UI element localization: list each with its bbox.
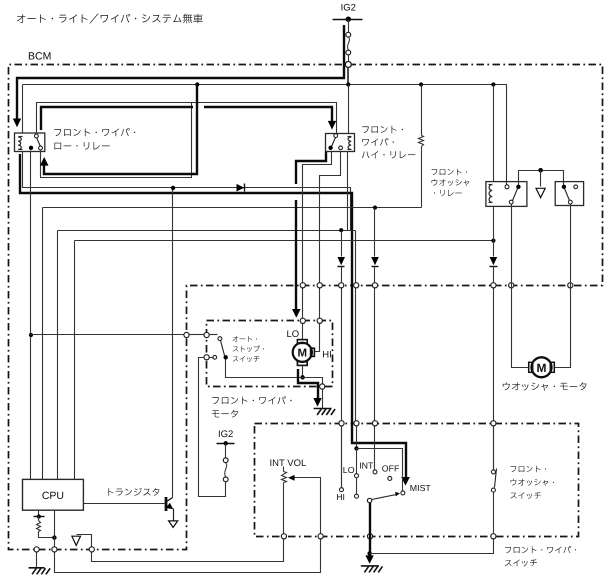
wire washer motor left feed	[512, 205, 529, 368]
motor M front wiper	[293, 343, 312, 362]
node junctions on y84 rail	[195, 82, 199, 86]
label ロー・リレー	[54, 142, 109, 150]
ground BCM	[36, 553, 38, 568]
svg-text:LO: LO	[287, 329, 300, 340]
relay front wiper high	[326, 134, 355, 152]
relay blade right box	[565, 189, 570, 201]
diode D3	[371, 257, 379, 265]
arrow continuation washer	[540, 171, 542, 187]
wire thick high relay common to motor LO	[296, 152, 326, 184]
label オート・ライト／ワイパ・システム無車	[17, 14, 203, 24]
wire thick motor brush to ground	[298, 369, 318, 398]
wire IG2 to auto stop contact	[199, 358, 226, 497]
arrow continuation below transistor	[169, 521, 178, 528]
svg-text:M: M	[537, 361, 547, 375]
arrow continuation stub	[72, 536, 81, 545]
arrow motor ground	[313, 398, 321, 407]
diode D4	[490, 257, 498, 265]
wire high relay coil bottom pin	[347, 152, 349, 231]
arrow into high relay	[328, 121, 336, 130]
svg-text:INT VOL: INT VOL	[270, 458, 307, 469]
svg-text:IG2: IG2	[341, 3, 356, 14]
wire motor bottom to junction	[302, 366, 304, 378]
wire HI contact drop	[341, 231, 343, 257]
wire LO contact	[356, 449, 358, 474]
wire thin rail y84	[23, 85, 507, 185]
contact HI	[341, 426, 343, 488]
wire bus y240.6 washer relay drive	[75, 240, 494, 242]
wire washer relay coil pins	[493, 85, 495, 182]
wire high relay pin to motor sense	[303, 152, 332, 341]
wire blade common to ground	[369, 503, 371, 556]
svg-text:CPU: CPU	[42, 490, 64, 502]
resistor R2 below CPU	[38, 516, 40, 521]
node BCM bottom circles	[34, 547, 39, 552]
wire L3 thin low relay left pin	[23, 152, 351, 231]
label フロント・ワイパ・	[505, 546, 576, 553]
relay blade high	[332, 138, 336, 147]
svg-text:IG2: IG2	[218, 429, 233, 440]
wire bus y207.6 LO drive	[43, 207, 422, 209]
label ストップ・	[233, 346, 264, 352]
label ウオッシャ・モータ	[503, 382, 587, 390]
label フロント・	[511, 466, 547, 473]
wire thick y107 to high relay arrow	[41, 107, 193, 130]
arrow switch ground	[365, 555, 373, 563]
wire high relay coil top riser	[348, 85, 350, 134]
label ウオッシャ・	[511, 479, 555, 486]
wire thick feed rail y77	[17, 25, 344, 119]
relay blade low	[37, 138, 41, 147]
wire CPU pin4 riser x74.9	[74, 241, 76, 480]
label スイッチ	[505, 559, 537, 566]
label オート・	[233, 336, 257, 342]
ground wiper switch	[361, 566, 383, 573]
node switch box top circles	[339, 421, 344, 426]
diode D2	[337, 257, 345, 265]
svg-text:BCM: BCM	[28, 51, 51, 63]
fuse IG2 top	[346, 32, 351, 37]
wire low relay pin2 drop	[22, 85, 24, 133]
wire auto stop common to ground rail	[226, 358, 323, 409]
svg-text:HI: HI	[322, 350, 332, 361]
wire INT contact drop	[374, 208, 376, 257]
arrow pot wiper	[288, 475, 295, 481]
label ・リレー	[434, 190, 462, 196]
wiper switch boundary box	[255, 424, 579, 537]
switch blade wiper	[367, 498, 371, 502]
wire high relay NO pin to motor HI	[315, 152, 341, 352]
wiper motor boundary box	[207, 321, 333, 387]
svg-text:MIST: MIST	[410, 483, 432, 493]
svg-text:HI: HI	[336, 492, 345, 502]
contact box right	[555, 182, 583, 206]
label ハイ・リレー	[362, 151, 415, 158]
label トランジスタ	[108, 488, 159, 496]
svg-text:OFF: OFF	[382, 464, 400, 474]
svg-text:M: M	[298, 348, 308, 360]
wire L4 thick coil bottom feed to wiper switch	[20, 154, 406, 477]
wire MIST feed thin drop	[355, 231, 357, 424]
power tap IG2 top	[333, 19, 363, 21]
node IG2 entry to BCM	[345, 62, 351, 68]
label ウオッシャ	[432, 179, 470, 186]
wire CPU to auto stop	[31, 334, 184, 336]
contact INT	[373, 470, 377, 474]
svg-text:LO: LO	[343, 465, 355, 475]
contact OFF	[388, 476, 392, 480]
svg-text:INT: INT	[359, 460, 374, 470]
wire washer switch to ground node	[370, 539, 494, 554]
label スイッチ	[233, 356, 260, 362]
wire L2 loop low relay right pin	[41, 103, 192, 178]
wire low relay top circle to high relay top circle	[37, 103, 337, 135]
arrow into motor LO	[292, 309, 301, 318]
label フロント・ワイパ・	[212, 396, 291, 404]
arrow MIST feed	[401, 477, 410, 486]
wire pot bottom return	[92, 539, 284, 562]
node switch box bottom circles	[281, 534, 286, 539]
CPU box	[23, 479, 84, 510]
label フロント・	[362, 126, 403, 133]
resistor R1	[421, 85, 423, 136]
wire thick feed loop to low relay	[44, 84, 197, 174]
switch auto stop	[218, 337, 222, 341]
switch front washer	[493, 426, 495, 470]
relay front washer	[486, 182, 527, 207]
relay front wiper low	[15, 133, 45, 152]
transistor Q1 base wire	[84, 503, 165, 505]
potentiometer INT VOL	[283, 467, 285, 472]
wire CPU pin3 riser x57.6	[57, 231, 59, 480]
label スイッチ	[510, 492, 540, 499]
fuse IG2 lower	[223, 458, 228, 463]
power tap IG2 lower	[217, 443, 235, 445]
wire MIST branch	[356, 426, 358, 449]
arrow up into low relay	[40, 157, 49, 166]
wire bus y230.2 high relay coil drive	[58, 230, 356, 232]
power tap below CPU	[38, 511, 40, 516]
wire resistor to node	[39, 532, 55, 538]
transistor Q1	[165, 497, 168, 511]
wire CPU net to INT VOL wiper	[55, 539, 321, 573]
diode D1 on L3	[237, 184, 245, 192]
wire washer relay common rail	[519, 171, 564, 185]
wire transistor collector riser	[172, 188, 174, 498]
label フロント・ワイパ・	[54, 128, 135, 136]
node boundary circles y285	[300, 283, 305, 288]
wire CPU pin2 riser x42.5	[42, 208, 44, 480]
wire relay common to CPU	[30, 151, 32, 480]
contact MIST	[401, 491, 405, 495]
node motor box top circles	[300, 318, 305, 323]
motor M washer	[532, 357, 552, 377]
label ワイパ・	[362, 138, 394, 146]
wire CPU pin to bottom node	[54, 511, 56, 547]
ground motor	[314, 409, 336, 416]
arrow into low relay coil	[13, 119, 21, 128]
label フロント・	[432, 169, 468, 176]
wire washer motor right feed	[555, 205, 571, 368]
label モータ	[212, 410, 238, 418]
relay blade washer	[513, 189, 518, 201]
wire washer switch drop	[493, 241, 495, 257]
